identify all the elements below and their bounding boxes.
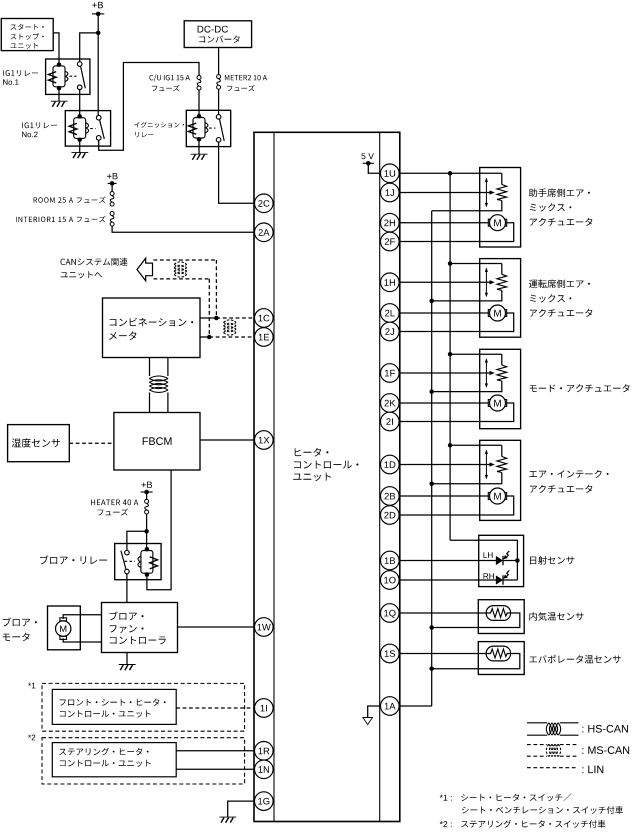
legend LIN wire: [527, 767, 577, 769]
legend HS-CAN text: [582, 725, 628, 733]
start-stop unit box: [1, 19, 53, 51]
wire return bus to pin 1A: [399, 705, 432, 707]
wire wiper arrow (mode actuator): [399, 371, 494, 375]
potentiometer (mode actuator): [432, 354, 507, 391]
label driver air mix actuator: [529, 279, 593, 317]
connector pin 2F: [381, 232, 400, 251]
label sun sensor: [530, 556, 574, 565]
wire +B to IG1 relay No.2 switch: [97, 14, 99, 115]
label blower relay: [40, 555, 107, 564]
label air intake actuator: [529, 470, 608, 493]
start-stop unit label: [10, 24, 43, 49]
wire combination meter to CAN low: [200, 336, 209, 338]
junction MS-CAN low: [207, 335, 212, 340]
photodiode LH: [496, 551, 509, 565]
footnote *1 line 2: [462, 806, 623, 814]
wire motor + (driver air mix actuator): [399, 312, 488, 314]
CAN continuation arrow: [137, 258, 153, 281]
label evaporator temp sensor: [529, 655, 621, 664]
junction return bus actuator 2: [429, 299, 434, 304]
combination meter label: [109, 318, 193, 340]
wire cabin temp sensor to return bus: [432, 613, 520, 628]
wire pin 1O to RH photodiode: [399, 579, 496, 581]
label IG1 relay No.2: [22, 122, 57, 137]
wire MS-CAN high to arrow (dashed): [154, 259, 217, 261]
potentiometer (passenger air mix actuator): [432, 173, 507, 211]
wire METER2 fuse to ignition relay switch: [218, 89, 220, 114]
cabin temp sensor box: [478, 600, 524, 634]
junction MS-CAN high: [214, 316, 219, 321]
fuse ROOM 25A: [110, 192, 114, 207]
relay IG1 No.1 switch: [77, 62, 85, 90]
wire evaporator temp sensor to return bus: [432, 654, 520, 669]
wire wiper arrow (air intake actuator): [399, 463, 494, 467]
potentiometer (air intake actuator): [432, 445, 507, 483]
wire MS-CAN low to arrow (dashed): [154, 278, 210, 280]
wire IG1 No.2 switch to C/U IG1 fuse: [99, 63, 199, 151]
wire blower fan controller to ground: [126, 653, 128, 665]
fuse C/U IG1 15A: [197, 75, 201, 90]
connector pin 1J: [381, 183, 400, 202]
HS-CAN twist (meter-FBCM): [149, 376, 168, 392]
fuse HEATER 40A: [145, 499, 149, 514]
legend MS-CAN text: [582, 746, 629, 754]
label passenger air mix actuator: [529, 188, 593, 226]
wire HS-CAN pair to FBCM right: [167, 393, 169, 413]
connector pin 2I: [381, 412, 400, 431]
passenger air mix actuator box: [480, 168, 521, 248]
blower relay actuation link: [125, 560, 135, 562]
photodiode RH: [496, 570, 509, 584]
connector pin 1Q: [381, 604, 400, 623]
MS-CAN twist (to arrow): [174, 262, 187, 277]
wire motor return (air intake actuator): [399, 496, 514, 515]
label to CAN system units: [61, 258, 128, 279]
thermistor (evaporator temp sensor): [486, 646, 510, 661]
note mark *2: [28, 735, 35, 741]
connector pin 1R: [254, 742, 273, 761]
connector pin 2A: [254, 223, 273, 242]
evaporator temp sensor box: [478, 642, 524, 675]
legend HS-CAN wire pair: [527, 723, 579, 735]
option box *1 (dashed): [42, 683, 245, 731]
wire humidity sensor to FBCM (LIN dashed): [69, 442, 114, 444]
connector pin 1B: [381, 551, 400, 570]
front seat heater control unit label: [60, 699, 166, 718]
note mark *1: [28, 683, 35, 689]
fuse INTERIOR1 15A: [110, 212, 114, 227]
relay IG1 No.2 box: [65, 111, 110, 147]
DC-DC converter box: [184, 21, 251, 48]
wire C/U IG1 fuse to ignition relay coil: [198, 90, 200, 116]
wire IG1 No.1 coil to ground: [58, 88, 60, 101]
sun sensor box: [479, 535, 524, 586]
blower motor: [56, 618, 71, 640]
legend LIN text: [582, 766, 603, 774]
footnote *2: [440, 820, 606, 828]
connector pin 2B: [381, 487, 400, 506]
wire DC-DC to METER2 fuse: [218, 48, 220, 75]
FBCM label: [143, 437, 172, 445]
wire HS-CAN pair to FBCM left: [149, 393, 151, 413]
wire +B to HEATER fuse: [146, 492, 148, 501]
ground (heater control unit 1G): [220, 817, 237, 823]
wire IG1 No.2 coil to ground: [79, 140, 81, 153]
wire motor + (air intake actuator): [399, 495, 488, 497]
potentiometer (driver air mix actuator): [432, 264, 507, 301]
wire HS-CAN pair meter to FBCM left: [149, 358, 151, 377]
junction 5V bus at 1U: [448, 171, 453, 176]
steering heater control unit label: [59, 748, 150, 767]
blower fan controller box: [102, 603, 178, 653]
junction return bus cabin temp: [429, 625, 434, 630]
connector pin 1E: [254, 328, 273, 347]
wire blower motor - to controller: [63, 638, 101, 642]
junction sun sensor LH: [515, 558, 520, 563]
connector pin 1A: [381, 697, 400, 716]
connector pin 2J: [381, 322, 400, 341]
wire pin 1B to LH photodiode: [399, 560, 496, 562]
relay IG1 No.1 box: [46, 59, 90, 94]
humidity sensor label: [12, 438, 60, 447]
driver air mix actuator box: [480, 259, 521, 338]
junction heater feed: [144, 529, 149, 534]
relay IG1 No.2 switch: [96, 115, 104, 140]
connector pin 1O: [381, 571, 400, 590]
5V internal supply: [361, 153, 380, 173]
wire steering heater unit to pin 1R: [176, 750, 254, 752]
connector pin 1U: [381, 164, 400, 183]
label HEATER 40A fuse: [91, 499, 138, 515]
wire CAN high to pin 1C (dashed): [216, 317, 254, 319]
ignition relay actuation link: [209, 127, 215, 129]
wire motor return (passenger air mix actuator): [399, 223, 514, 242]
label ignition relay: [134, 122, 184, 138]
connector pin 2D: [381, 506, 400, 525]
wire 5V bus into sun sensor: [450, 540, 517, 580]
wire combination meter to CAN high: [200, 317, 216, 319]
relay IG1 No.1 coil: [48, 62, 68, 90]
connector pin 2H: [381, 213, 400, 232]
signal return bus vertical: [431, 211, 433, 706]
wire steering heater unit to pin 1N: [176, 768, 254, 770]
heater control unit U1 outline: [254, 132, 400, 821]
wire +B to ROOM fuse: [111, 183, 113, 193]
connector pin 1W: [254, 618, 273, 637]
wire HS-CAN pair meter to FBCM right: [167, 358, 169, 377]
wire motor return (driver air mix actuator): [399, 313, 514, 332]
wire LH photodiode to bus: [504, 560, 518, 562]
footnote *1 line 1: [440, 793, 572, 801]
ignition relay coil: [188, 114, 208, 142]
wire junction to blower relay switch: [127, 531, 147, 550]
junction return bus evaporator temp: [429, 666, 434, 671]
DC-DC converter label: [198, 26, 240, 43]
connector pin 1G: [254, 792, 273, 811]
ignition relay box: [186, 110, 230, 146]
label IG1 relay No.1: [3, 70, 38, 85]
label mode actuator: [530, 384, 630, 392]
wire MS-CAN high drop (dashed): [215, 260, 217, 318]
wire pin 1U to air mix actuator (5V feed): [399, 172, 502, 174]
label INTERIOR1 15A fuse: [16, 216, 106, 222]
ignition relay switch: [216, 115, 224, 143]
motor (air intake actuator): [488, 488, 506, 504]
connector pin 1C: [254, 309, 273, 328]
wire IG1 No.1 switch to IG1 No.2 coil: [79, 90, 81, 117]
wire +B branch to IG1 relay No.1 switch: [80, 33, 99, 62]
front seat heater control unit box: [52, 689, 176, 724]
junction return bus actuator 4: [429, 481, 434, 486]
wire ignition relay switch to pin 2C: [219, 142, 255, 203]
motor (mode actuator): [488, 395, 506, 411]
junction return bus actuator 3: [429, 389, 434, 394]
connector pin 1I: [254, 699, 273, 718]
label blower motor: [3, 618, 37, 642]
relay IG1 No.2 actuation link: [90, 128, 95, 130]
motor (passenger air mix actuator): [488, 215, 506, 231]
wire 5V bus to driver air mix actuator potentiometer: [450, 263, 502, 265]
connector pin 1S: [381, 644, 400, 663]
label C/U IG1 15A fuse: [149, 75, 190, 92]
5V sensor bus vertical: [449, 173, 451, 540]
combination meter box: [103, 298, 201, 358]
motor (driver air mix actuator): [488, 305, 506, 321]
junction +B branch: [96, 31, 101, 36]
legend MS-CAN twist: [546, 744, 560, 756]
blower relay box: [115, 544, 161, 580]
blower motor box: [48, 606, 81, 650]
connector pin 2C: [254, 194, 273, 213]
wire FBCM to pin 1X: [200, 439, 254, 441]
air intake actuator box: [480, 440, 521, 520]
wire motor + (passenger air mix actuator): [399, 222, 488, 224]
wire ignition relay coil to ground: [198, 139, 200, 154]
ground (blower fan controller): [119, 665, 136, 671]
ground (ignition relay): [191, 154, 208, 160]
blower relay switch: [121, 550, 129, 574]
wire pin 1S to evaporator temp sensor: [399, 653, 486, 655]
FBCM box: [114, 413, 200, 471]
heater control unit left connector rail: [273, 132, 275, 821]
connector pin 2K: [381, 394, 400, 413]
wire 5V bus to air intake actuator potentiometer: [450, 444, 502, 446]
1A internal ground arrow: [363, 706, 381, 725]
junction 5V bus actuator 3: [448, 352, 453, 357]
wire blower fan controller to pin 1W: [178, 626, 255, 628]
wire MS-CAN low drop (dashed): [208, 279, 210, 337]
fuse METER2 10A: [217, 75, 221, 90]
option box *2 (dashed): [42, 738, 245, 784]
wire pin 1Q to cabin temp sensor: [399, 612, 486, 614]
label RH: [484, 573, 495, 579]
wire 5V bus to mode actuator potentiometer: [450, 353, 502, 355]
thermistor (cabin temp sensor): [486, 606, 510, 621]
junction 5V bus actuator 4: [448, 443, 453, 448]
humidity sensor box: [8, 425, 70, 462]
wire INTERIOR1 fuse to pin 2A: [112, 226, 254, 232]
connector pin 2L: [381, 304, 400, 323]
junction 5V bus actuator 2: [448, 261, 453, 266]
wire CAN low to pin 1E (dashed): [209, 336, 254, 338]
label ROOM 25A fuse: [34, 197, 106, 203]
label LH: [484, 552, 493, 558]
wire start-stop unit to IG1 relay No.1 coil: [53, 33, 59, 65]
mode actuator box: [480, 349, 521, 428]
wire junction to blower relay coil: [146, 531, 148, 549]
label METER2 10A fuse: [225, 75, 267, 91]
wire FBCM to blower relay coil: [147, 470, 171, 590]
wire wiper arrow (driver air mix actuator): [399, 280, 494, 284]
ground (IG1 relay No.2): [72, 153, 89, 159]
legend MS-CAN wire pair: [527, 745, 579, 757]
connector pin 1H: [381, 273, 400, 292]
wire HEATER fuse to junction: [146, 514, 148, 531]
heater control unit label: [293, 448, 358, 481]
wire wiper arrow (passenger air mix actuator): [399, 191, 494, 195]
wire motor + (mode actuator): [399, 402, 488, 404]
wire front seat heater unit to pin 1I (LIN dashed): [176, 707, 254, 709]
+B supply node (interior fuses): [107, 173, 118, 186]
label cabin temp sensor: [529, 612, 583, 621]
wire RH photodiode to bus: [504, 579, 518, 581]
wire motor return (mode actuator): [399, 403, 514, 422]
wire pin 1G to ground: [228, 801, 255, 817]
legend HS-CAN twist: [546, 723, 560, 735]
connector pin 1F: [381, 364, 400, 383]
heater control unit right connector rail: [379, 132, 381, 821]
+B supply node (heater fuse): [141, 482, 153, 495]
blower relay coil: [138, 547, 158, 577]
connector pin 1D: [381, 455, 400, 474]
wire blower relay switch to blower fan controller: [126, 574, 128, 603]
MS-CAN twist (pins 1C/1E): [224, 320, 237, 335]
connector pin 1X: [254, 431, 273, 450]
wire blower motor + to controller: [63, 615, 101, 619]
relay IG1 No.1 actuation link: [70, 75, 77, 77]
relay IG1 No.2 coil: [69, 114, 89, 142]
connector pin 1N: [254, 760, 273, 779]
steering heater control unit box: [52, 743, 176, 777]
blower fan controller label: [110, 611, 166, 644]
+B supply node (top): [92, 2, 104, 16]
ground (IG1 relay No.1): [51, 101, 68, 107]
